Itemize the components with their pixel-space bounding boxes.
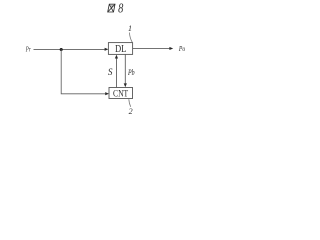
svg-text:Pr: Pr: [25, 45, 31, 54]
svg-text:Pb: Pb: [127, 68, 134, 77]
svg-text:S: S: [108, 67, 113, 77]
svg-text:CNT: CNT: [113, 89, 129, 99]
svg-text:Po: Po: [178, 44, 185, 53]
svg-text:DL: DL: [115, 44, 126, 55]
svg-text:8: 8: [118, 1, 123, 16]
svg-text:1: 1: [128, 24, 132, 33]
svg-text:2: 2: [129, 107, 133, 116]
